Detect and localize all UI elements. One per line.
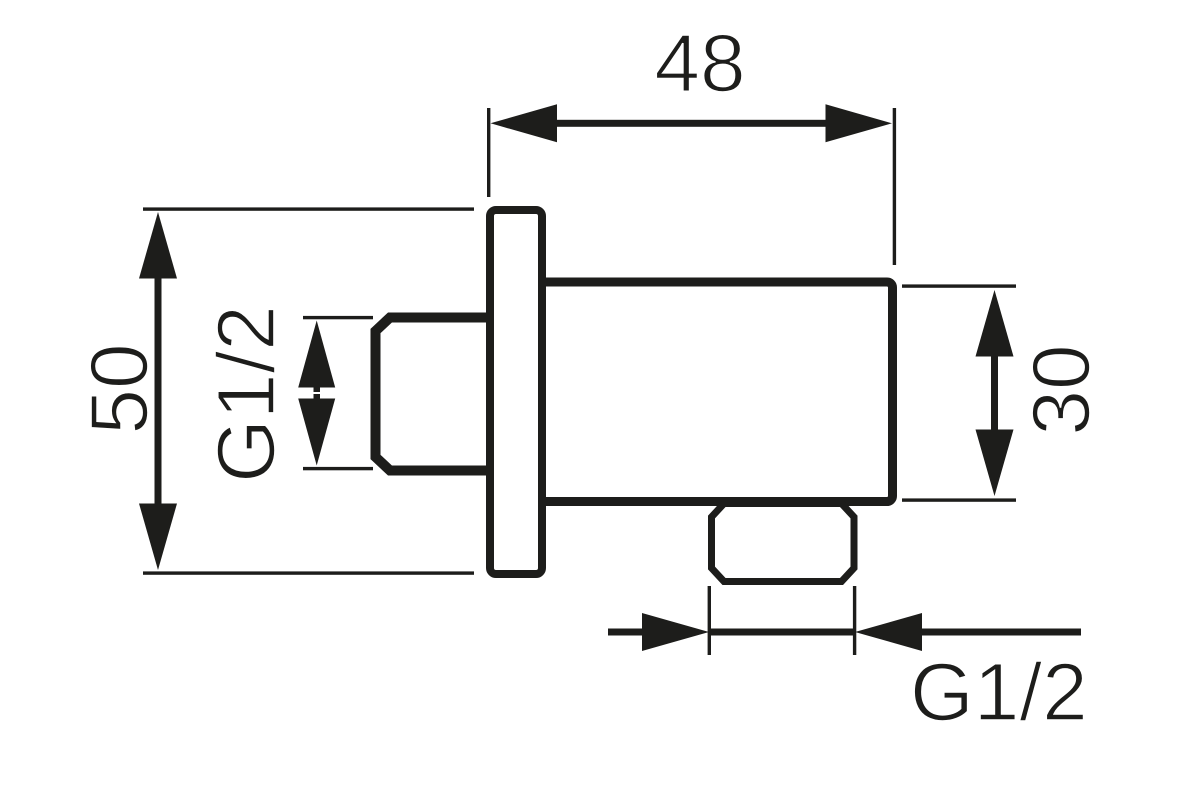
dimension G1/2 bottom port: right extension line	[853, 586, 856, 655]
svg-text:G1/2: G1/2	[201, 305, 292, 483]
dimension G1/2 side port: label (rotated)	[201, 305, 292, 483]
dimension G1/2 bottom port: line between extension lines	[709, 629, 854, 636]
svg-text:50: 50	[74, 343, 165, 434]
dimension 50: bottom extension line	[143, 571, 474, 574]
dimension 48: left extension line	[487, 108, 490, 197]
nut (hex nut below body)	[712, 504, 855, 582]
dimension G1/2 side port: opposed arrows	[298, 321, 335, 466]
dimension G1/2 bottom port: left extension line	[708, 586, 711, 655]
dimension G1/2 bottom port: label	[910, 647, 1088, 738]
dimension 50: value label (rotated)	[74, 343, 165, 434]
dimension G1/2 side port: top extension line	[303, 316, 373, 319]
wall plate (escutcheon)	[490, 210, 542, 574]
dimension 30: value label (rotated)	[1016, 344, 1107, 435]
dimension 48: value label	[654, 18, 745, 109]
dimension G1/2 side port: bottom extension line	[303, 467, 373, 470]
dimension 48: right extension line	[893, 108, 896, 265]
svg-text:48: 48	[654, 18, 745, 109]
dimension 30: dimension line with arrowheads	[976, 290, 1014, 496]
dimension 50: dimension line with arrowheads	[139, 212, 177, 570]
dimension 48: dimension line with arrowheads	[491, 104, 893, 142]
svg-text:G1/2: G1/2	[910, 647, 1088, 738]
dimension 30: top extension line	[902, 284, 1016, 287]
dimension 50: top extension line	[143, 207, 474, 210]
spigot G1/2 (left threaded port)	[376, 318, 496, 471]
dimension G1/2 bottom port: left arrow pointing right	[608, 613, 709, 651]
dimension 30: bottom extension line	[902, 498, 1016, 501]
body (main rectangular block)	[540, 282, 893, 502]
svg-text:30: 30	[1016, 344, 1107, 435]
dimension G1/2 bottom port: right arrow pointing left	[855, 613, 1081, 651]
